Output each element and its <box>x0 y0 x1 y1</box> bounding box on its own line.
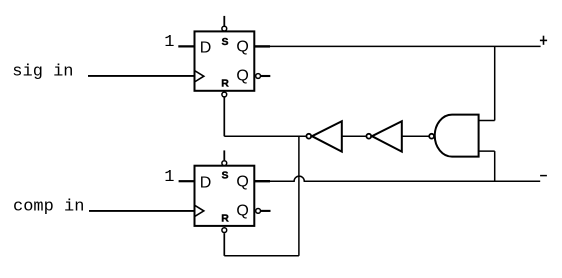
U2 R bubble <box>222 228 227 233</box>
U1 S input stub <box>223 16 225 26</box>
U1 Qbar bubble <box>256 74 261 79</box>
wire U2 Q to minus rail with hop over vertical <box>254 176 540 181</box>
wire U1 Q to plus rail <box>254 45 540 47</box>
nand U5 output bubble <box>429 134 434 139</box>
inverter U3 bubble <box>306 134 311 139</box>
svg-text:S: S <box>222 170 229 182</box>
plus output label <box>540 36 547 45</box>
U1 clock triangle <box>195 71 204 82</box>
U1 S bubble <box>222 26 227 31</box>
wire 1 to U2 D <box>179 180 195 182</box>
U2 clock triangle <box>195 205 204 216</box>
U2 S bubble <box>222 161 227 166</box>
U2 Qbar stub <box>261 210 271 212</box>
svg-text:R: R <box>221 77 229 89</box>
wire 1 to U1 D <box>178 45 194 47</box>
U2 Qbar bubble <box>256 209 261 214</box>
svg-text:1: 1 <box>164 33 174 52</box>
flip-flop U2 body <box>195 166 255 226</box>
svg-text:sig in: sig in <box>12 62 73 81</box>
nand U5 input B stub <box>479 150 495 152</box>
wire comp in to U2 clock <box>89 210 195 212</box>
svg-text:D: D <box>200 39 212 56</box>
wire node junction vertical down to U2 R run <box>298 136 300 256</box>
wire branch plus rail down to U5 input A <box>494 46 496 120</box>
wire U2 R up from bottom run <box>223 233 225 256</box>
nand U5 body <box>435 115 479 157</box>
svg-text:Q: Q <box>236 203 248 220</box>
wire U4 output to U3 input <box>342 135 366 137</box>
svg-text:1: 1 <box>164 168 174 187</box>
wire sig in to U1 clock <box>88 75 195 77</box>
wire branch minus rail up to U5 input B <box>494 151 496 181</box>
inverter U3 triangle <box>312 121 342 151</box>
U1 Q pin stub <box>254 45 270 47</box>
wire U5 output to U4 input <box>402 135 429 137</box>
U2 S input stub <box>223 150 225 160</box>
svg-text:Q: Q <box>236 38 248 55</box>
svg-text:comp in: comp in <box>13 198 84 217</box>
wire U1 R down <box>223 97 225 136</box>
flip-flop U1 body <box>195 31 255 90</box>
wire bottom run to U2 R <box>224 255 299 257</box>
inverter U4 triangle <box>372 121 402 151</box>
svg-text:R: R <box>221 213 229 225</box>
U2 Q pin stub <box>254 180 270 182</box>
U1 R bubble <box>222 92 227 97</box>
wire U1 R to inverter U3 output <box>224 135 305 137</box>
U1 Qbar stub <box>261 75 270 77</box>
minus output label <box>540 175 547 177</box>
svg-text:Q: Q <box>236 68 248 85</box>
inverter U4 bubble <box>366 134 371 139</box>
nand U5 input A stub <box>479 120 495 122</box>
svg-text:D: D <box>200 175 212 192</box>
svg-text:Q: Q <box>236 173 248 190</box>
svg-text:S: S <box>222 36 229 48</box>
